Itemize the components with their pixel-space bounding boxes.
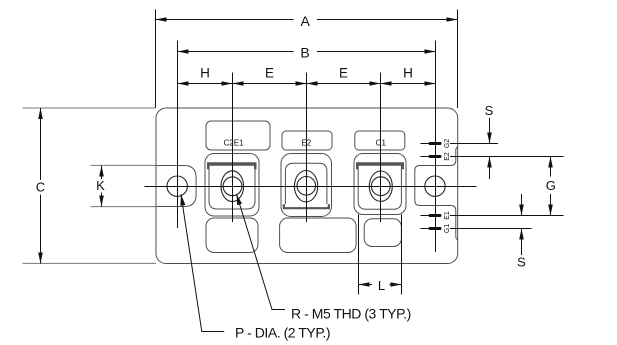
- svg-text:S: S: [485, 103, 494, 118]
- svg-text:K: K: [96, 178, 105, 193]
- svg-text:E1: E1: [444, 211, 451, 220]
- svg-text:G2: G2: [444, 139, 451, 148]
- svg-text:P - DIA. (2 TYP.): P - DIA. (2 TYP.): [235, 325, 330, 341]
- svg-text:E: E: [339, 65, 348, 80]
- svg-text:R - M5 THD (3 TYP.): R - M5 THD (3 TYP.): [291, 306, 411, 322]
- svg-text:S: S: [517, 255, 526, 270]
- svg-text:G: G: [546, 178, 556, 193]
- svg-text:C2E1: C2E1: [223, 139, 244, 148]
- svg-text:E: E: [265, 65, 274, 80]
- svg-text:C: C: [36, 180, 45, 195]
- svg-text:B: B: [300, 44, 309, 60]
- svg-text:G1: G1: [444, 224, 451, 233]
- svg-text:L: L: [378, 278, 385, 293]
- svg-text:H: H: [403, 65, 413, 80]
- svg-text:H: H: [200, 65, 210, 80]
- svg-text:A: A: [301, 13, 311, 29]
- svg-text:C1: C1: [376, 139, 387, 148]
- svg-text:E2: E2: [444, 152, 451, 161]
